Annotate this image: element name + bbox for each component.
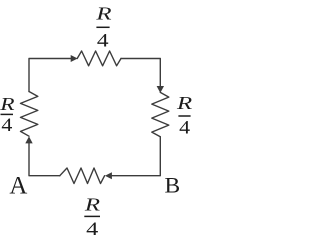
label R/4 left (0, 94, 15, 136)
resistor R/4 right (152, 92, 169, 136)
svg-text:4: 4 (97, 30, 109, 51)
wire top-left segment (29, 59, 72, 92)
svg-text:4: 4 (1, 116, 12, 136)
svg-text:A: A (9, 173, 27, 200)
wire right-bottom segment (112, 137, 161, 176)
svg-text:R: R (176, 93, 192, 113)
resistor R/4 top (77, 51, 121, 66)
label R/4 right (176, 93, 192, 138)
current arrow bottom (points left) (105, 172, 112, 179)
wire bottom-left segment (29, 143, 60, 176)
wire top-right segment (121, 59, 160, 88)
svg-text:4: 4 (179, 118, 190, 138)
label R/4 bottom (84, 195, 100, 239)
svg-text:R: R (0, 94, 15, 115)
svg-text:B: B (164, 172, 180, 198)
current arrow top (points right) (71, 55, 78, 62)
svg-text:R: R (84, 195, 100, 215)
resistor R/4 left (21, 92, 38, 137)
svg-text:4: 4 (86, 219, 98, 240)
current arrow left (points up) (25, 136, 32, 143)
label R/4 top (95, 4, 111, 51)
current arrow right (points down) (157, 86, 164, 93)
resistor R/4 bottom (60, 168, 105, 184)
svg-text:R: R (95, 4, 111, 24)
